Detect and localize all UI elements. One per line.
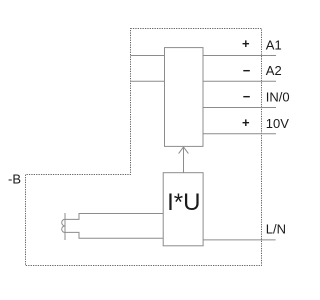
svg-text:10V: 10V bbox=[266, 116, 289, 131]
measuring module I*U bbox=[163, 173, 203, 246]
svg-text:IN/0: IN/0 bbox=[266, 90, 290, 105]
svg-text:+: + bbox=[242, 115, 250, 130]
wire coil bottom to step bbox=[65, 232, 163, 238]
svg-text:I*U: I*U bbox=[167, 189, 200, 216]
svg-text:−: − bbox=[243, 89, 251, 104]
wire IN/0 bbox=[203, 107, 276, 109]
svg-text:A1: A1 bbox=[266, 38, 282, 53]
arrow from I*U to terminal block bbox=[183, 147, 185, 172]
svg-text:+: + bbox=[242, 36, 250, 51]
wire 10V bbox=[203, 133, 276, 135]
terminal block U1 (tall rectangle) bbox=[165, 48, 204, 147]
svg-text:A2: A2 bbox=[266, 63, 282, 78]
wire coil top to step bbox=[65, 214, 163, 220]
current transformer T1 primary conductor bbox=[64, 213, 66, 240]
wire A1 bbox=[203, 55, 276, 57]
svg-text:-B: -B bbox=[8, 171, 21, 186]
enclosure dashed boundary -B bbox=[26, 29, 262, 266]
current transformer T1 secondary coil bbox=[62, 219, 65, 232]
wire L/N bbox=[203, 239, 276, 241]
svg-text:−: − bbox=[243, 63, 251, 78]
wire A2 bbox=[203, 80, 276, 82]
wire A2 left stub bbox=[131, 80, 165, 82]
svg-text:L/N: L/N bbox=[266, 221, 286, 236]
wire A1 left stub bbox=[131, 55, 165, 57]
